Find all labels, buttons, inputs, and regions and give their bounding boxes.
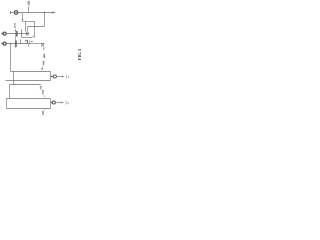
wire bottom loop bottom <box>7 108 51 110</box>
terminal tick IN1 <box>1 33 3 35</box>
transistor Q1 source wire <box>22 37 33 39</box>
input circle IN2 <box>3 42 6 45</box>
label 54 (rotated smudge) + lead down <box>41 61 44 70</box>
wire output mid <box>56 76 62 78</box>
wire output bottom <box>55 102 61 104</box>
arrowhead output mid <box>62 76 64 78</box>
terminal tick IN2 <box>1 43 3 45</box>
label 56 (rotated smudge) <box>40 87 42 90</box>
wire x13.5 down <box>13 72 15 85</box>
wire W2 <box>28 26 45 28</box>
bracket vertical bottom <box>50 99 52 109</box>
brace + label a (bottom output) <box>66 101 69 105</box>
wire H_mid2 <box>6 80 51 82</box>
summing circle M1 <box>53 75 56 78</box>
label 52 (rotated smudge) + lead up <box>43 47 45 58</box>
terminal tick T1 <box>10 11 12 14</box>
svg-text:FIG. 5: FIG. 5 <box>77 49 82 60</box>
summing circle M2 <box>52 101 55 104</box>
wire W1 down to Q2 <box>25 22 27 32</box>
node dot bottom <box>51 102 53 104</box>
transistor Q1 gate bar <box>16 31 18 37</box>
wire between rows <box>15 34 17 44</box>
transistor Q2 body <box>27 32 29 36</box>
arrowhead rail output <box>52 12 56 14</box>
transistor Q4 body <box>25 40 33 47</box>
transistor Q1 channel <box>21 29 23 37</box>
wire stub W2 down <box>27 27 29 32</box>
wire H_a <box>11 71 51 73</box>
node dot mid <box>51 76 53 78</box>
transistor Q2 arrow marks <box>26 34 34 38</box>
wire row2 to X <box>31 43 44 45</box>
wire x10 down <box>10 44 12 72</box>
label 60 (rotated smudge) + lead <box>42 109 46 115</box>
wire dot to circle bottom <box>51 102 53 104</box>
transistor Q3 channel <box>20 39 22 43</box>
ground symbol <box>14 44 17 48</box>
wire x9.5 down <box>9 85 11 99</box>
bracket vertical mid <box>50 72 52 81</box>
wire top rail <box>18 12 52 14</box>
arrow down from rail <box>22 13 24 21</box>
wire bottom loop left <box>6 99 8 109</box>
label 30 (rotated numeral smudge) <box>28 1 30 5</box>
wire bottom loop top <box>7 98 51 100</box>
wire rail down to W2 <box>44 13 46 27</box>
label 10 + lead arrow (rotated smudge) <box>14 24 16 33</box>
wire input row 1 <box>6 33 29 35</box>
wire W1 <box>22 21 34 23</box>
wire W1 right end down <box>34 22 36 27</box>
label 58 (rotated smudge) + lead <box>42 91 45 98</box>
junction node <box>44 12 46 14</box>
wire W2 column down to row1 wire <box>34 27 36 38</box>
node dot x10 <box>10 43 12 45</box>
node dot row1 <box>15 33 17 35</box>
brace + label a (mid output) <box>66 75 69 79</box>
input circle IN1 <box>3 32 6 35</box>
crossing X mark <box>41 43 44 47</box>
transistor Q3 gate bar <box>15 41 17 47</box>
wire stub up <box>28 7 30 13</box>
current source CS1 <box>14 11 18 15</box>
wire input row 2 <box>6 43 31 45</box>
wire H_b <box>10 84 42 86</box>
arrowhead output bottom <box>61 102 63 104</box>
node dot row2 <box>15 43 17 45</box>
wire dot to circle <box>51 76 54 78</box>
wire <box>11 12 15 14</box>
